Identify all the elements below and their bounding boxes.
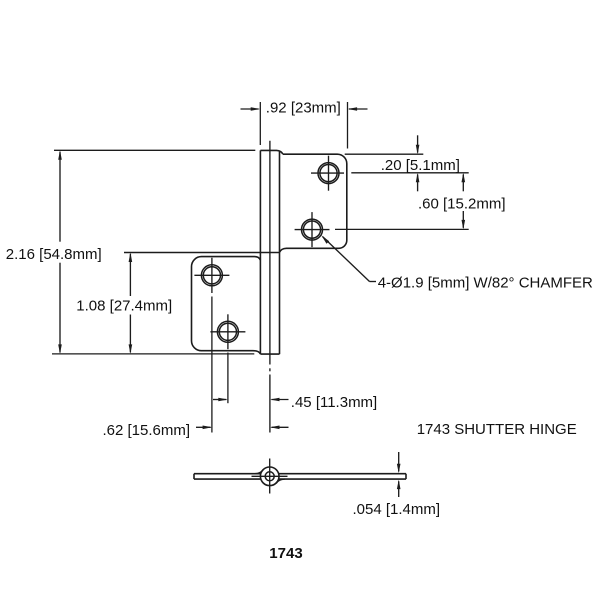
bottom view knuckle right transition curve	[276, 479, 285, 483]
svg-text:4-Ø1.9 [5mm] W/82° CHAMFER: 4-Ø1.9 [5mm] W/82° CHAMFER	[378, 274, 593, 291]
svg-text:1743: 1743	[269, 545, 302, 562]
pin centerline main view	[269, 141, 271, 365]
hole RH1 outer chamfer circle	[318, 163, 339, 184]
svg-text:.054 [1.4mm]: .054 [1.4mm]	[353, 501, 441, 518]
dimension .20 arrows	[417, 135, 419, 152]
svg-text:1743 SHUTTER HINGE: 1743 SHUTTER HINGE	[417, 421, 577, 438]
extension line top of part (2.16 upper)	[54, 149, 255, 151]
bottom edge view bar	[194, 474, 406, 479]
dimension 2.16 line and arrows	[59, 152, 61, 242]
hole RH2 inner circle	[303, 221, 320, 238]
svg-text:2.16 [54.8mm]: 2.16 [54.8mm]	[6, 246, 102, 263]
hole RH2 outer chamfer circle	[302, 219, 323, 240]
bottom view pin hole circle	[265, 472, 274, 481]
right leaf outline	[280, 154, 347, 252]
extension line hole RH1 centerline (.20/.60)	[351, 172, 468, 174]
hole LH2 crosshair	[210, 331, 245, 333]
hole LH1 outer chamfer circle	[201, 265, 222, 286]
svg-text:.92 [23mm]: .92 [23mm]	[266, 99, 341, 116]
hole LH1 crosshair	[194, 274, 229, 276]
hole RH1 crosshair	[311, 172, 344, 174]
svg-text:.20 [5.1mm]: .20 [5.1mm]	[381, 157, 460, 174]
dimension .60 arrows	[462, 174, 464, 191]
bottom view knuckle left transition curve	[255, 470, 263, 474]
dimension .45 line and arrows	[213, 399, 226, 401]
extension line .92 right	[347, 102, 349, 149]
svg-text:.62 [15.6mm]: .62 [15.6mm]	[103, 422, 191, 439]
left leaf outline	[192, 257, 261, 354]
extension line hole LH2 down (.45)	[227, 353, 229, 404]
dimension .92 line and arrows	[241, 108, 259, 110]
extension line right leaf top edge (.20)	[345, 153, 424, 155]
hole LH2 outer chamfer circle	[217, 321, 238, 342]
hole LH2 inner circle	[219, 323, 236, 340]
hole LH1 inner circle	[203, 267, 220, 284]
extension line .92 left	[259, 102, 261, 145]
dimension .62 line and arrows	[196, 426, 211, 428]
extension line hole RH2 centerline (.60)	[335, 228, 469, 230]
barrel bottom edge	[260, 353, 279, 355]
hole RH2 crosshair	[295, 229, 330, 231]
callout leader line and arrow	[323, 237, 370, 282]
dimension 1.08 line and arrows	[129, 254, 131, 296]
barrel left vertical line	[259, 150, 261, 354]
svg-text:1.08 [27.4mm]: 1.08 [27.4mm]	[76, 298, 172, 315]
extension line bottom of part (2.16 / 1.08 lower)	[52, 353, 254, 355]
bottom view crosshair	[252, 459, 288, 494]
barrel top edge	[260, 150, 283, 154]
hole RH1 inner circle	[320, 165, 337, 182]
dimension .054 arrows	[397, 452, 401, 497]
svg-text:.45 [11.3mm]: .45 [11.3mm]	[291, 394, 377, 411]
bottom view knuckle outer circle	[260, 467, 279, 486]
barrel right vertical line	[279, 151, 281, 354]
knuckle edge line across barrel	[124, 252, 280, 254]
extension line hole LH1 down (.62)	[211, 297, 213, 433]
svg-text:.60 [15.2mm]: .60 [15.2mm]	[418, 196, 506, 213]
